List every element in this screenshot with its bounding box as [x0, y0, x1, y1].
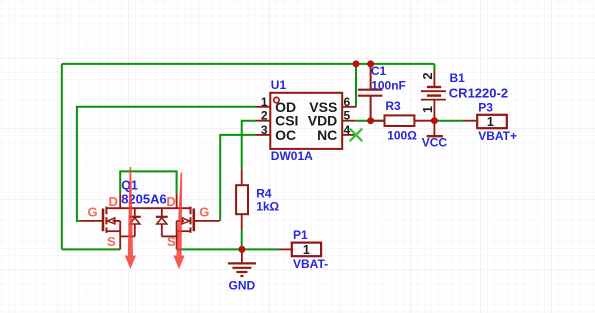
R3 left pin: [371, 120, 385, 122]
left diode triangle: [130, 218, 140, 224]
right drain stub: [176, 193, 178, 208]
left body vertical: [119, 221, 121, 231]
left drain stub: [119, 193, 121, 208]
wire VCC to P3: [434, 120, 463, 122]
wire VSS drop: [355, 64, 357, 107]
connector P1: [292, 243, 321, 257]
junction C1/VDD: [367, 117, 374, 124]
svg-text:S: S: [167, 234, 176, 249]
right channel segments: [190, 207, 192, 233]
left source stub: [119, 231, 121, 249]
right source horizontal: [177, 230, 191, 232]
wire drain link Q1: [120, 171, 176, 193]
wire VDD to R3: [355, 120, 384, 122]
svg-text:2: 2: [261, 109, 268, 123]
power port VCC: [427, 121, 443, 137]
svg-text:1: 1: [261, 95, 268, 109]
svg-text:P1: P1: [293, 228, 308, 242]
svg-text:100Ω: 100Ω: [387, 129, 417, 143]
svg-text:B1: B1: [450, 71, 466, 85]
U1 pin 2: [256, 120, 270, 122]
left source horizontal: [106, 230, 120, 232]
svg-text:CR1220-2: CR1220-2: [449, 86, 508, 101]
right source stub: [176, 231, 178, 249]
svg-text:DW01A: DW01A: [271, 149, 313, 163]
wire B- bottom to Q1 source: [62, 248, 120, 250]
U1 pin 4: [342, 134, 356, 136]
svg-text:D: D: [166, 194, 175, 209]
svg-text:P3: P3: [478, 100, 493, 114]
junction VCC node: [431, 117, 438, 124]
svg-text:VBAT-: VBAT-: [293, 257, 328, 271]
wire C1 bottom green: [370, 118, 372, 121]
svg-text:NC: NC: [317, 127, 337, 143]
svg-text:S: S: [107, 234, 116, 249]
R3 right pin: [414, 120, 434, 122]
svg-text:G: G: [199, 205, 209, 220]
no-connect X on pin 4: [350, 129, 363, 142]
svg-text:R3: R3: [385, 99, 401, 113]
svg-text:VCC: VCC: [422, 136, 448, 150]
junction GND node: [238, 246, 245, 253]
svg-text:2: 2: [421, 72, 435, 79]
svg-text:100nF: 100nF: [371, 79, 406, 93]
left arrow head (points left to channel): [107, 218, 114, 224]
R4 top pin: [241, 169, 243, 185]
Q1 pin labels G D S: [88, 194, 210, 249]
U1 pin 1: [256, 106, 270, 108]
marker arrow left: [125, 167, 136, 269]
U1 pin names: [275, 99, 337, 143]
right diode triangle: [157, 218, 167, 224]
left gate pin: [81, 220, 104, 222]
wire OD net pin1 to left gate: [77, 107, 256, 221]
resistor R4: [236, 185, 248, 214]
wire C1 top green: [370, 64, 372, 68]
wire B- top rail: [62, 63, 435, 65]
wire B- left vertical: [61, 64, 63, 250]
svg-text:1: 1: [421, 106, 435, 113]
svg-text:1kΩ: 1kΩ: [256, 199, 279, 213]
ground symbol: [228, 249, 256, 276]
U1 pin 5: [342, 120, 355, 122]
svg-text:U1: U1: [271, 78, 287, 92]
svg-text:G: G: [88, 205, 98, 220]
P3 pin: [463, 120, 477, 122]
right gate bar: [193, 209, 196, 232]
drain-drain top line: [106, 207, 190, 209]
svg-text:6: 6: [344, 95, 351, 109]
left channel segments: [105, 207, 107, 233]
svg-text:1: 1: [303, 243, 310, 257]
junction top VSS: [353, 60, 360, 67]
U1 pin1 marker circle: [274, 97, 279, 102]
right arrow head (points right to channel): [182, 218, 189, 224]
U1 pin numbers: [261, 95, 351, 137]
svg-text:OC: OC: [275, 127, 296, 143]
wire R4 bottom green: [241, 230, 243, 249]
battery B1: [421, 71, 446, 121]
svg-text:1: 1: [487, 115, 494, 129]
transistor Q1 right FET: [177, 193, 220, 249]
wire battery top green: [433, 64, 435, 71]
svg-text:GND: GND: [229, 279, 256, 293]
right gate pin: [194, 220, 220, 222]
left body horizontal: [113, 220, 121, 222]
R4 bottom pin: [241, 214, 243, 230]
svg-text:5: 5: [344, 109, 351, 123]
svg-text:8205A6: 8205A6: [121, 192, 167, 207]
right body diode: [156, 208, 177, 236]
IC U1 DW01A body: [270, 93, 342, 149]
capacitor C1: [358, 68, 383, 118]
P1 pin: [279, 248, 293, 250]
left body diode: [120, 208, 141, 236]
svg-text:3: 3: [261, 123, 268, 137]
right body horizontal: [177, 220, 184, 222]
transistor Q1 left FET: [81, 193, 191, 249]
svg-text:D: D: [109, 194, 118, 209]
resistor R3: [385, 115, 415, 126]
wire CSI net pin2 to R4: [242, 121, 256, 170]
svg-text:R4: R4: [256, 187, 272, 201]
wire OC net pin3 to right gate: [220, 135, 256, 221]
wire P- bottom: [177, 248, 279, 250]
left gate bar: [102, 209, 105, 232]
svg-text:VBAT+: VBAT+: [478, 129, 517, 143]
U1 pin 6: [342, 106, 356, 108]
right body vertical: [176, 221, 178, 231]
U1 pin 3: [256, 134, 270, 136]
marker arrow right: [173, 173, 184, 270]
connector P3: [477, 115, 507, 128]
junction top C1: [367, 60, 374, 67]
